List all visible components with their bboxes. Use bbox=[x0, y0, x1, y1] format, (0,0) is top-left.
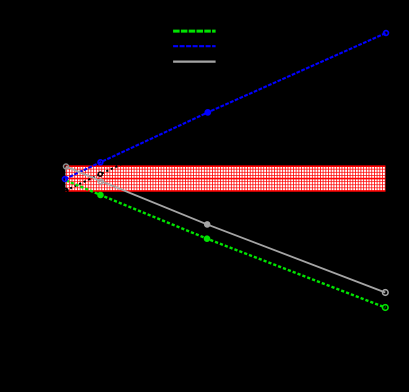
black series open marker over band bbox=[98, 172, 102, 176]
red hatched band (shaded region) bbox=[65, 166, 386, 192]
blue open marker p2 bbox=[98, 160, 103, 165]
green open marker at end bbox=[383, 305, 389, 311]
band bottom border line bbox=[65, 190, 386, 192]
gray filled marker p3 bbox=[204, 221, 211, 228]
gray open marker at end bbox=[383, 290, 389, 296]
black dash-dot series line bbox=[66, 41, 386, 191]
blue filled marker p3 bbox=[204, 109, 211, 116]
legend blue dashed sample bbox=[173, 45, 216, 47]
blue open marker p1 bbox=[63, 177, 68, 182]
legend green dashed sample bbox=[173, 30, 216, 33]
band middle divider line bbox=[65, 178, 386, 180]
gray open marker p1 bbox=[64, 164, 69, 169]
green dashed series line bbox=[66, 180, 385, 307]
green filled marker p3 bbox=[204, 235, 211, 242]
band top border line bbox=[65, 165, 386, 167]
blue open marker at end bbox=[384, 31, 389, 36]
plot left axis (black, visible over band) bbox=[64, 33, 66, 330]
gray solid series line bbox=[66, 167, 385, 293]
green filled marker p2 bbox=[97, 192, 104, 199]
blue dashed series line bbox=[65, 33, 386, 179]
legend gray solid sample bbox=[173, 60, 216, 62]
black series marker at first point bbox=[63, 188, 68, 193]
gray open marker p2 bbox=[98, 179, 103, 184]
